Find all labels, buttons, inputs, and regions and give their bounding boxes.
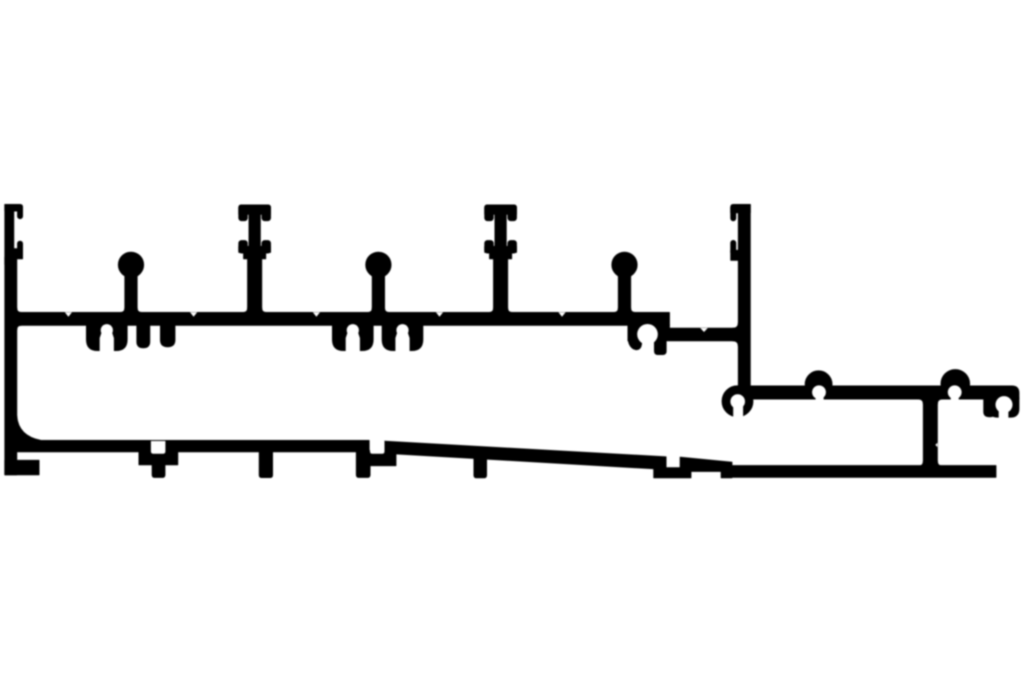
right post top cap [731,205,750,213]
interlock tab C [356,451,370,478]
interlock slot C [370,441,385,454]
left wall (outer frame upstand) [5,205,17,475]
screw-port pendant A block [139,451,178,465]
right vertical descender [918,398,942,467]
right post (frame upstand) [738,205,750,395]
right post top hook finger [731,205,736,221]
white carves [65,312,1013,453]
bottom rail (right low part) [732,466,996,478]
left wall top hook finger [18,205,23,219]
claw socket S1 [87,324,128,351]
sloped bottom web (right piece) [680,457,732,478]
inner corner fillet [17,416,41,441]
upper bar of right step [738,386,1019,399]
drainage stub F1 [137,324,150,348]
snap dome D1 [805,371,832,398]
large claw socket S4 body [628,324,666,355]
rail top V-notches [65,312,72,316]
left wall lower clip finger [18,241,23,255]
left wall top cap [5,205,23,212]
claw socket S2 [333,324,374,351]
glazing post T2 [485,205,517,314]
pendant tab B [259,452,272,478]
screw port slot A [151,441,166,454]
left wall clip lip [14,249,23,259]
right post lower clip finger [731,241,736,255]
gasket pin P3 [612,252,637,313]
glazing post T1 [239,205,271,314]
end hook cavity [996,396,1013,413]
snap dome D2 [941,370,970,399]
large claw cavity [637,324,658,345]
end hook (right) outer [984,392,1019,417]
drainage stub F2 [161,324,175,347]
interlock block C [369,454,396,466]
lower step band (right of rail) [628,323,739,347]
sloped bottom web (left piece) [385,441,667,469]
keyhole of dome D2 [948,385,962,399]
bottom rail (left flat part) [14,441,369,452]
clip hook cavity (under right post) [730,394,745,409]
left clip hook under right post [722,386,753,417]
interlock block under sloped web [654,468,691,478]
claw socket S3 [382,324,423,351]
main top rail [14,308,670,330]
gasket pin P1 [118,252,143,313]
pendant tab D [474,458,487,478]
gasket pin P2 [366,252,391,313]
right post clip lip [731,250,745,260]
bottom-left foot [5,460,39,474]
screw-port pendant A foot [152,465,165,478]
descender notch [935,443,937,447]
keyhole of dome D1 [812,385,826,399]
